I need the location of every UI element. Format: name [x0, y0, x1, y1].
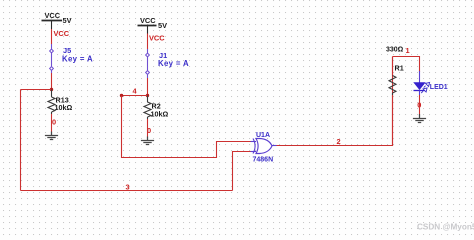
svg-text:Key = A: Key = A [62, 54, 93, 63]
wire node A left [21, 89, 52, 91]
resistor R13 [48, 90, 72, 115]
switch J5 [50, 44, 93, 73]
wire VCC to J5 [51, 29, 53, 44]
svg-text:CSDN @Myon5: CSDN @Myon5 [417, 223, 474, 232]
wire up to gate input B [233, 152, 252, 191]
svg-text:U1A: U1A [256, 132, 270, 139]
XOR gate U1A [251, 132, 277, 163]
node C junction [120, 94, 123, 97]
wire LED to ground 3 [419, 95, 421, 114]
wire net 1 (top) [393, 57, 420, 73]
LED LED1 [414, 71, 448, 95]
wire R13 to ground 1 [51, 114, 53, 132]
svg-text:0: 0 [52, 118, 56, 127]
wire net 4 [122, 95, 148, 97]
wire net 3 bottom [21, 190, 233, 192]
wire R1 to net 2 [392, 95, 394, 146]
svg-text:3: 3 [126, 182, 130, 191]
svg-text:330Ω: 330Ω [386, 46, 404, 53]
svg-text:1: 1 [406, 46, 410, 55]
node B junction [146, 94, 149, 97]
wire J5 to node A [51, 73, 53, 90]
resistor R1 [386, 46, 404, 95]
svg-text:VCC: VCC [45, 11, 61, 20]
ground 1 [45, 132, 58, 140]
wire left vertical down [20, 90, 22, 191]
ground 3 [413, 114, 426, 123]
svg-text:5V: 5V [63, 16, 72, 25]
svg-text:LED1: LED1 [430, 84, 448, 91]
svg-text:7486N: 7486N [253, 156, 274, 163]
node A junction [50, 88, 53, 91]
svg-text:VCC: VCC [149, 33, 165, 42]
ground 2 [141, 137, 154, 145]
switch J1 [146, 49, 189, 78]
power VCC (branch 1) [42, 21, 63, 30]
wire down and right to gate input A [122, 96, 252, 158]
resistor R2 [144, 96, 168, 120]
svg-text:Key = A: Key = A [158, 59, 189, 68]
power VCC (branch 2) [138, 26, 157, 34]
wire VCC to J1 [147, 34, 149, 50]
wire J1 to node B [147, 78, 149, 96]
svg-text:R1: R1 [395, 64, 404, 73]
svg-text:VCC: VCC [54, 29, 70, 38]
svg-text:5V: 5V [158, 21, 167, 30]
svg-text:VCC: VCC [140, 16, 156, 25]
svg-text:10kΩ: 10kΩ [151, 109, 169, 118]
svg-text:10kΩ: 10kΩ [55, 103, 73, 112]
wire R2 to ground 2 [147, 119, 149, 137]
svg-text:2: 2 [337, 137, 341, 146]
wire net 2 (gate output) [277, 57, 393, 146]
